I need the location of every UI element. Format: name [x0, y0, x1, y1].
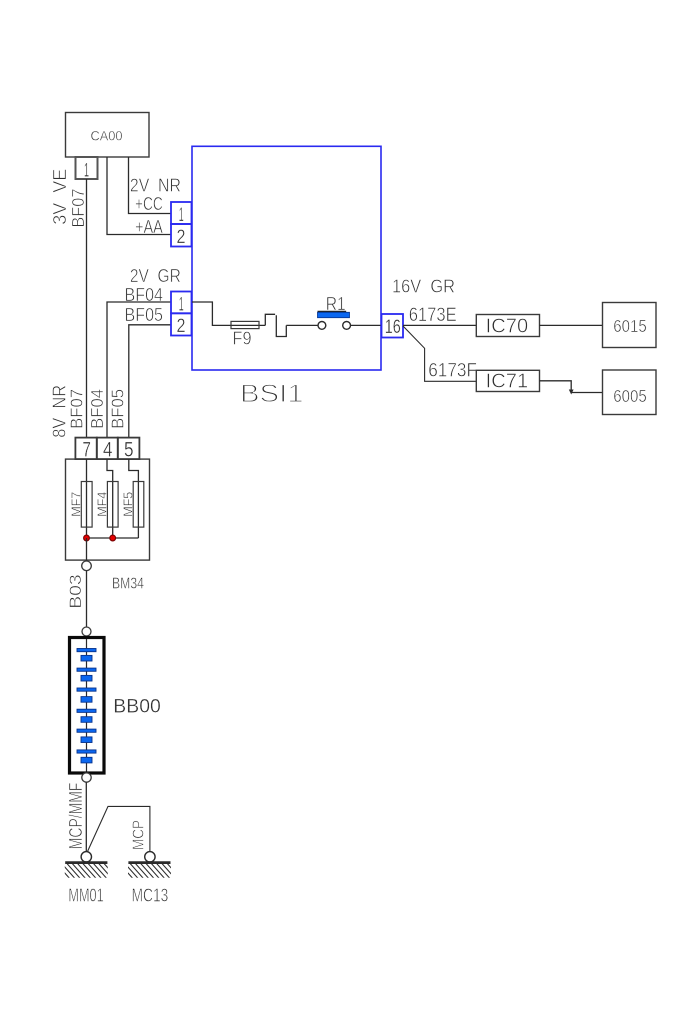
fusebox connector pin 7 [75, 438, 96, 460]
wire 6173F diagonal from pin16 [403, 326, 476, 381]
svg-text:5: 5 [124, 439, 134, 462]
component 6005 box [603, 370, 657, 415]
fusebox connector pin 4 [97, 438, 118, 460]
battery BB00 body [70, 638, 105, 774]
svg-text:1: 1 [179, 204, 184, 226]
wire 6173E from pin16 to IC70 [403, 324, 476, 326]
ground MC13 terminal [145, 852, 155, 862]
switch R1 blue actuator bar [318, 312, 350, 317]
svg-text:BF05: BF05 [125, 305, 164, 325]
BSI 2V-NR connector pin 2 [171, 224, 192, 247]
wire BF07 from CA00 pin1 down to fusebox pin 7 [86, 179, 88, 438]
module BSI1 box [192, 146, 381, 370]
battery BB00 bottom terminal [82, 773, 91, 782]
svg-text:MF7: MF7 [69, 492, 84, 517]
svg-text:MCP/MMF: MCP/MMF [66, 783, 86, 850]
wire BF04 from fusebox pin 4 up to BSI pin 1 [107, 302, 171, 438]
svg-text:6015: 6015 [613, 316, 647, 336]
svg-text:16V GR: 16V GR [392, 276, 455, 297]
svg-text:2: 2 [177, 315, 186, 337]
junction dot A [84, 535, 90, 541]
wire inside BSI from pin1 to fuse F9 [192, 302, 231, 325]
svg-text:BF04: BF04 [87, 389, 107, 429]
wire BF05 from fusebox pin 5 up to BSI pin 2 [129, 325, 171, 438]
wire +AA from CA00 to BSI pin 2 [107, 157, 171, 235]
svg-text:3V VE: 3V VE [49, 169, 70, 225]
svg-text:MF5: MF5 [121, 492, 136, 517]
svg-text:BF05: BF05 [108, 389, 128, 429]
fuse MF4 [107, 482, 118, 528]
fusebox connector pin 5 [118, 438, 140, 460]
battery internal wire [86, 639, 88, 772]
battery BB00 top terminal [82, 627, 91, 636]
wire IC70 to 6015 [540, 324, 603, 326]
ground MM01 terminal [81, 852, 91, 862]
BSI 2V-NR connector pin 1 [171, 202, 192, 224]
wire pin7 through fuse MF7 [86, 459, 88, 538]
svg-text:6173E: 6173E [409, 305, 457, 326]
svg-text:MM01: MM01 [68, 886, 103, 906]
switch R1 left contact [318, 322, 326, 330]
svg-text:CA00: CA00 [91, 128, 123, 144]
BSI pin 16 box [382, 314, 404, 338]
wire to switch R1 [286, 324, 318, 326]
wire pin4 jog to fuse MF4 [107, 459, 113, 538]
wire IC71 to 6005 [540, 381, 603, 393]
junction dot B [110, 535, 116, 541]
svg-text:MF4: MF4 [95, 492, 110, 517]
battery cell plates [77, 649, 96, 763]
svg-text:IC70: IC70 [486, 316, 529, 338]
svg-text:B03: B03 [66, 574, 85, 609]
svg-text:BM34: BM34 [112, 576, 144, 593]
switch R1 right contact [343, 322, 351, 330]
svg-text:1: 1 [84, 160, 89, 182]
fusebox BM34 box [66, 459, 150, 560]
arrowhead at wire step [569, 390, 574, 395]
wire strap to MC13 [88, 806, 150, 851]
wire through fuse F9 [231, 324, 265, 326]
svg-text:MCP: MCP [131, 820, 148, 850]
svg-text:BSI1: BSI1 [240, 380, 304, 408]
BSI 2V-GR connector pin 1 [171, 292, 192, 314]
svg-text:BF07: BF07 [68, 189, 88, 228]
inline connector break symbol [265, 314, 275, 325]
svg-text:4: 4 [103, 439, 113, 462]
svg-text:IC71: IC71 [486, 371, 529, 393]
fuse MF5 [133, 482, 144, 528]
svg-text:2V GR: 2V GR [130, 266, 181, 286]
svg-text:BB00: BB00 [113, 696, 161, 718]
svg-text:F9: F9 [233, 329, 252, 349]
wire B03 to battery [86, 571, 88, 627]
wire from R1 to pin 16 [351, 324, 382, 326]
junction bus wire [87, 537, 139, 539]
svg-text:2: 2 [177, 226, 186, 248]
wire +CC from CA00 to BSI pin 1 [129, 157, 171, 214]
splice IC70 box [476, 315, 539, 337]
wire battery to ground MM01 [85, 782, 87, 851]
component 6015 box [603, 303, 657, 348]
svg-text:BF07: BF07 [66, 389, 86, 429]
svg-text:+AA: +AA [135, 217, 163, 237]
svg-text:6005: 6005 [613, 386, 647, 406]
svg-text:+CC: +CC [135, 194, 163, 214]
component CA00 box [66, 113, 150, 158]
svg-text:16: 16 [385, 316, 401, 338]
BM34 output terminal circle [82, 561, 92, 571]
svg-text:6173F: 6173F [428, 361, 477, 382]
svg-text:MC13: MC13 [132, 886, 169, 906]
svg-text:2V NR: 2V NR [130, 176, 181, 196]
fuse MF7 [81, 482, 92, 528]
splice IC71 box [476, 370, 539, 391]
switch R1 underline [318, 310, 347, 312]
fuse F9 [231, 321, 259, 328]
svg-text:7: 7 [82, 439, 91, 462]
svg-text:1: 1 [179, 293, 184, 315]
wire from junction to BM34 output [86, 538, 88, 561]
connector pin 1 of CA00 [76, 157, 98, 179]
BSI 2V-GR connector pin 2 [171, 313, 192, 335]
wire pin5 jog to fuse MF5 [129, 459, 139, 538]
